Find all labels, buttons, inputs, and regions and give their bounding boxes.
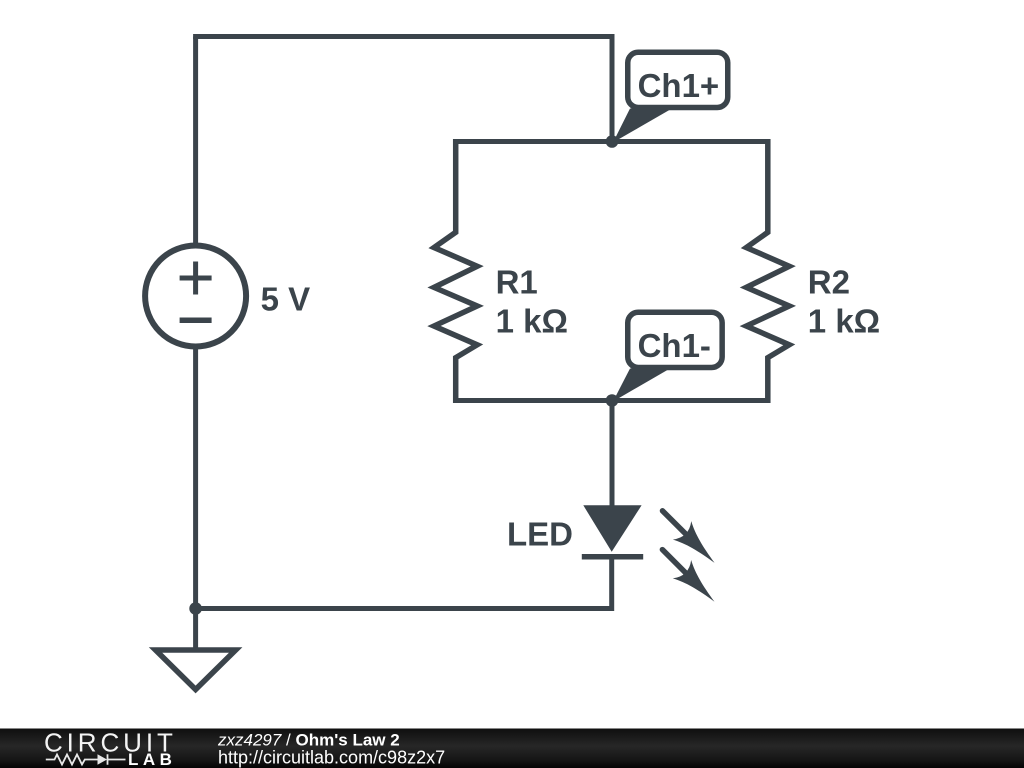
svg-text:R2: R2 bbox=[808, 264, 850, 301]
probe flag Ch1- bbox=[613, 312, 722, 401]
LED D1 bbox=[582, 505, 643, 611]
wire top rail bbox=[193, 34, 612, 39]
wire bottom rail bbox=[196, 606, 612, 611]
svg-text:http://circuitlab.com/c98z2x7: http://circuitlab.com/c98z2x7 bbox=[218, 748, 445, 768]
resistor R1 bbox=[434, 139, 477, 403]
node Ch1- junction bbox=[606, 394, 619, 407]
resistor R2 bbox=[746, 139, 789, 403]
wire drop to Ch1+ node bbox=[610, 34, 615, 142]
wire Ch1- node to LED bbox=[610, 401, 615, 507]
svg-text:5 V: 5 V bbox=[261, 281, 311, 318]
logo resistor-diode glyph bbox=[46, 754, 126, 764]
wire to ground bbox=[193, 609, 198, 651]
wire parallel box bottom rail bbox=[456, 398, 768, 403]
svg-text:1 kΩ: 1 kΩ bbox=[808, 303, 880, 340]
ground bbox=[156, 650, 236, 690]
svg-text:LED: LED bbox=[507, 516, 573, 553]
wire from V1 top to top rail bbox=[193, 37, 198, 246]
LED arrow 1 bbox=[653, 502, 723, 572]
svg-text:Ch1+: Ch1+ bbox=[638, 67, 720, 104]
wire V1 bottom to ground node bbox=[193, 347, 198, 609]
node Ch1+ junction bbox=[606, 135, 619, 148]
svg-text:R1: R1 bbox=[496, 264, 538, 301]
wire parallel box top rail bbox=[456, 139, 768, 144]
probe flag Ch1+ bbox=[613, 52, 728, 142]
footer bar bbox=[0, 729, 1024, 768]
svg-text:1 kΩ: 1 kΩ bbox=[496, 303, 568, 340]
LED arrow 2 bbox=[653, 540, 723, 610]
node ground junction bbox=[189, 602, 202, 615]
svg-text:Ch1-: Ch1- bbox=[638, 327, 711, 364]
voltage source V1 bbox=[145, 246, 246, 347]
svg-text:LAB: LAB bbox=[128, 750, 176, 768]
